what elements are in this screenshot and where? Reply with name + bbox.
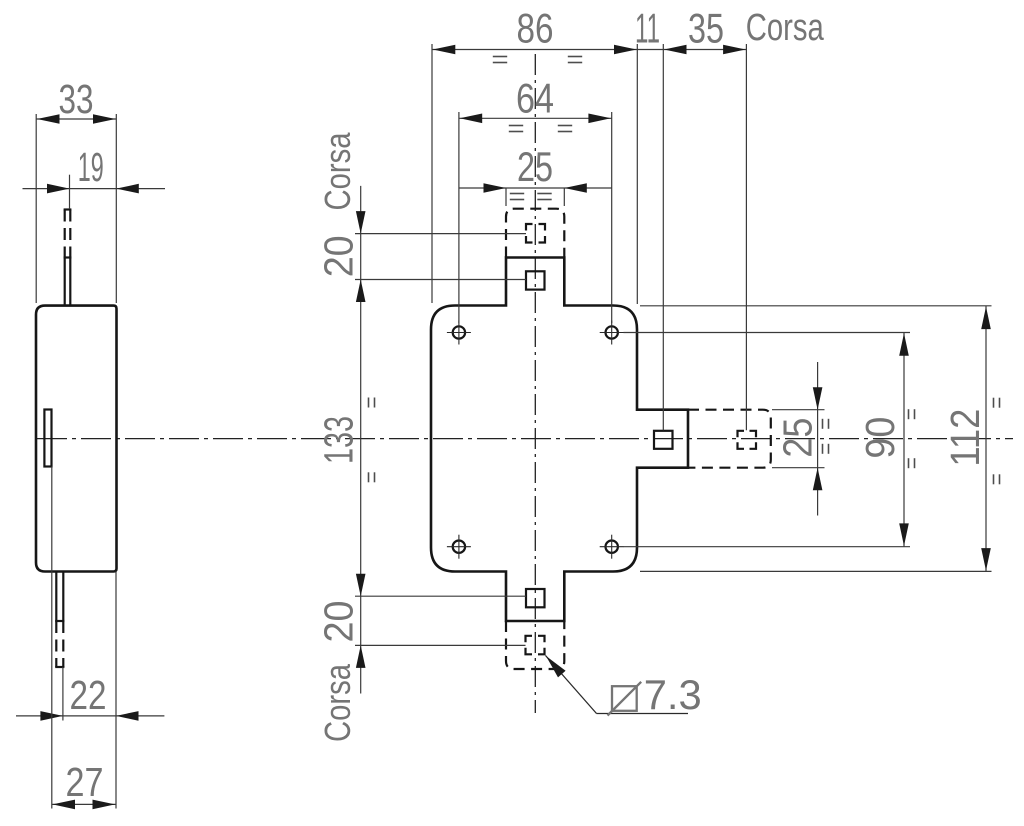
svg-text:22: 22 [70, 672, 107, 718]
svg-text:112: 112 [942, 409, 988, 467]
svg-text:133: 133 [316, 416, 362, 464]
svg-text:25: 25 [517, 143, 553, 190]
svg-text:27: 27 [66, 759, 104, 805]
svg-text:11: 11 [635, 5, 660, 52]
svg-text:90: 90 [857, 417, 903, 459]
svg-text:Corsa: Corsa [746, 7, 825, 49]
svg-text:19: 19 [78, 144, 104, 190]
svg-text:86: 86 [517, 5, 554, 52]
svg-text:33: 33 [59, 76, 94, 122]
svg-text:25: 25 [775, 418, 821, 458]
svg-text:20: 20 [316, 235, 362, 277]
svg-text:35: 35 [688, 5, 724, 52]
svg-text:7.3: 7.3 [644, 671, 702, 718]
svg-text:Corsa: Corsa [317, 132, 358, 211]
svg-text:64: 64 [516, 75, 554, 122]
svg-text:Corsa: Corsa [317, 663, 358, 742]
svg-text:20: 20 [316, 601, 362, 643]
